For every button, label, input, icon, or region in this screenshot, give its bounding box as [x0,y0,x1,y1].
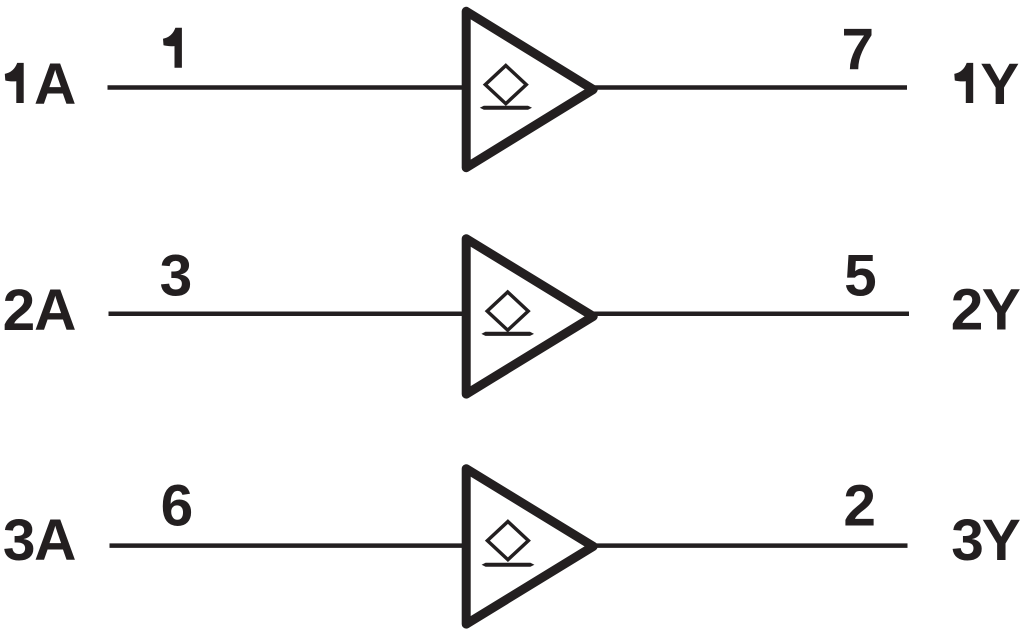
open-drain symbol U3 diamond [487,522,528,560]
svg-text:7: 7 [842,17,875,82]
open-drain symbol U1 underline bar [480,106,532,110]
wire: buffer to 2Y output, pin 5 [593,311,909,316]
open-drain symbol U2 diamond [487,292,528,330]
wire: buffer to 1Y output, pin 7 [593,85,907,90]
svg-text:A: A [34,52,76,117]
open-drain symbol U3 underline bar [482,563,535,567]
svg-text:3: 3 [3,508,36,573]
svg-text:Y: Y [982,278,1021,343]
wire: buffer to 3Y output, pin 2 [593,543,908,548]
svg-text:A: A [34,508,76,573]
input label 1A: digit 1 [5,63,24,103]
open-drain symbol U2 underline bar [481,332,534,336]
svg-text:5: 5 [844,244,877,309]
open-drain symbol U1 diamond [485,66,526,104]
output label 1Y: digit 1 [954,63,973,103]
svg-text:A: A [34,278,76,343]
wire: 2A input, pin 3 to buffer [109,311,469,316]
pin number 1 [163,28,182,68]
svg-text:3: 3 [951,508,984,573]
buffer U3 triangle [466,469,593,624]
svg-text:2: 2 [951,278,984,343]
buffer U1 triangle [466,11,593,167]
svg-text:2: 2 [3,278,36,343]
buffer U2 triangle [466,239,593,394]
svg-text:6: 6 [161,474,194,539]
svg-text:3: 3 [160,244,193,309]
svg-text:Y: Y [980,52,1019,117]
wire: 1A input, pin 1 to buffer [108,85,469,90]
svg-text:2: 2 [843,474,876,539]
wire: 3A input, pin 6 to buffer [110,543,469,548]
svg-text:Y: Y [982,508,1021,573]
